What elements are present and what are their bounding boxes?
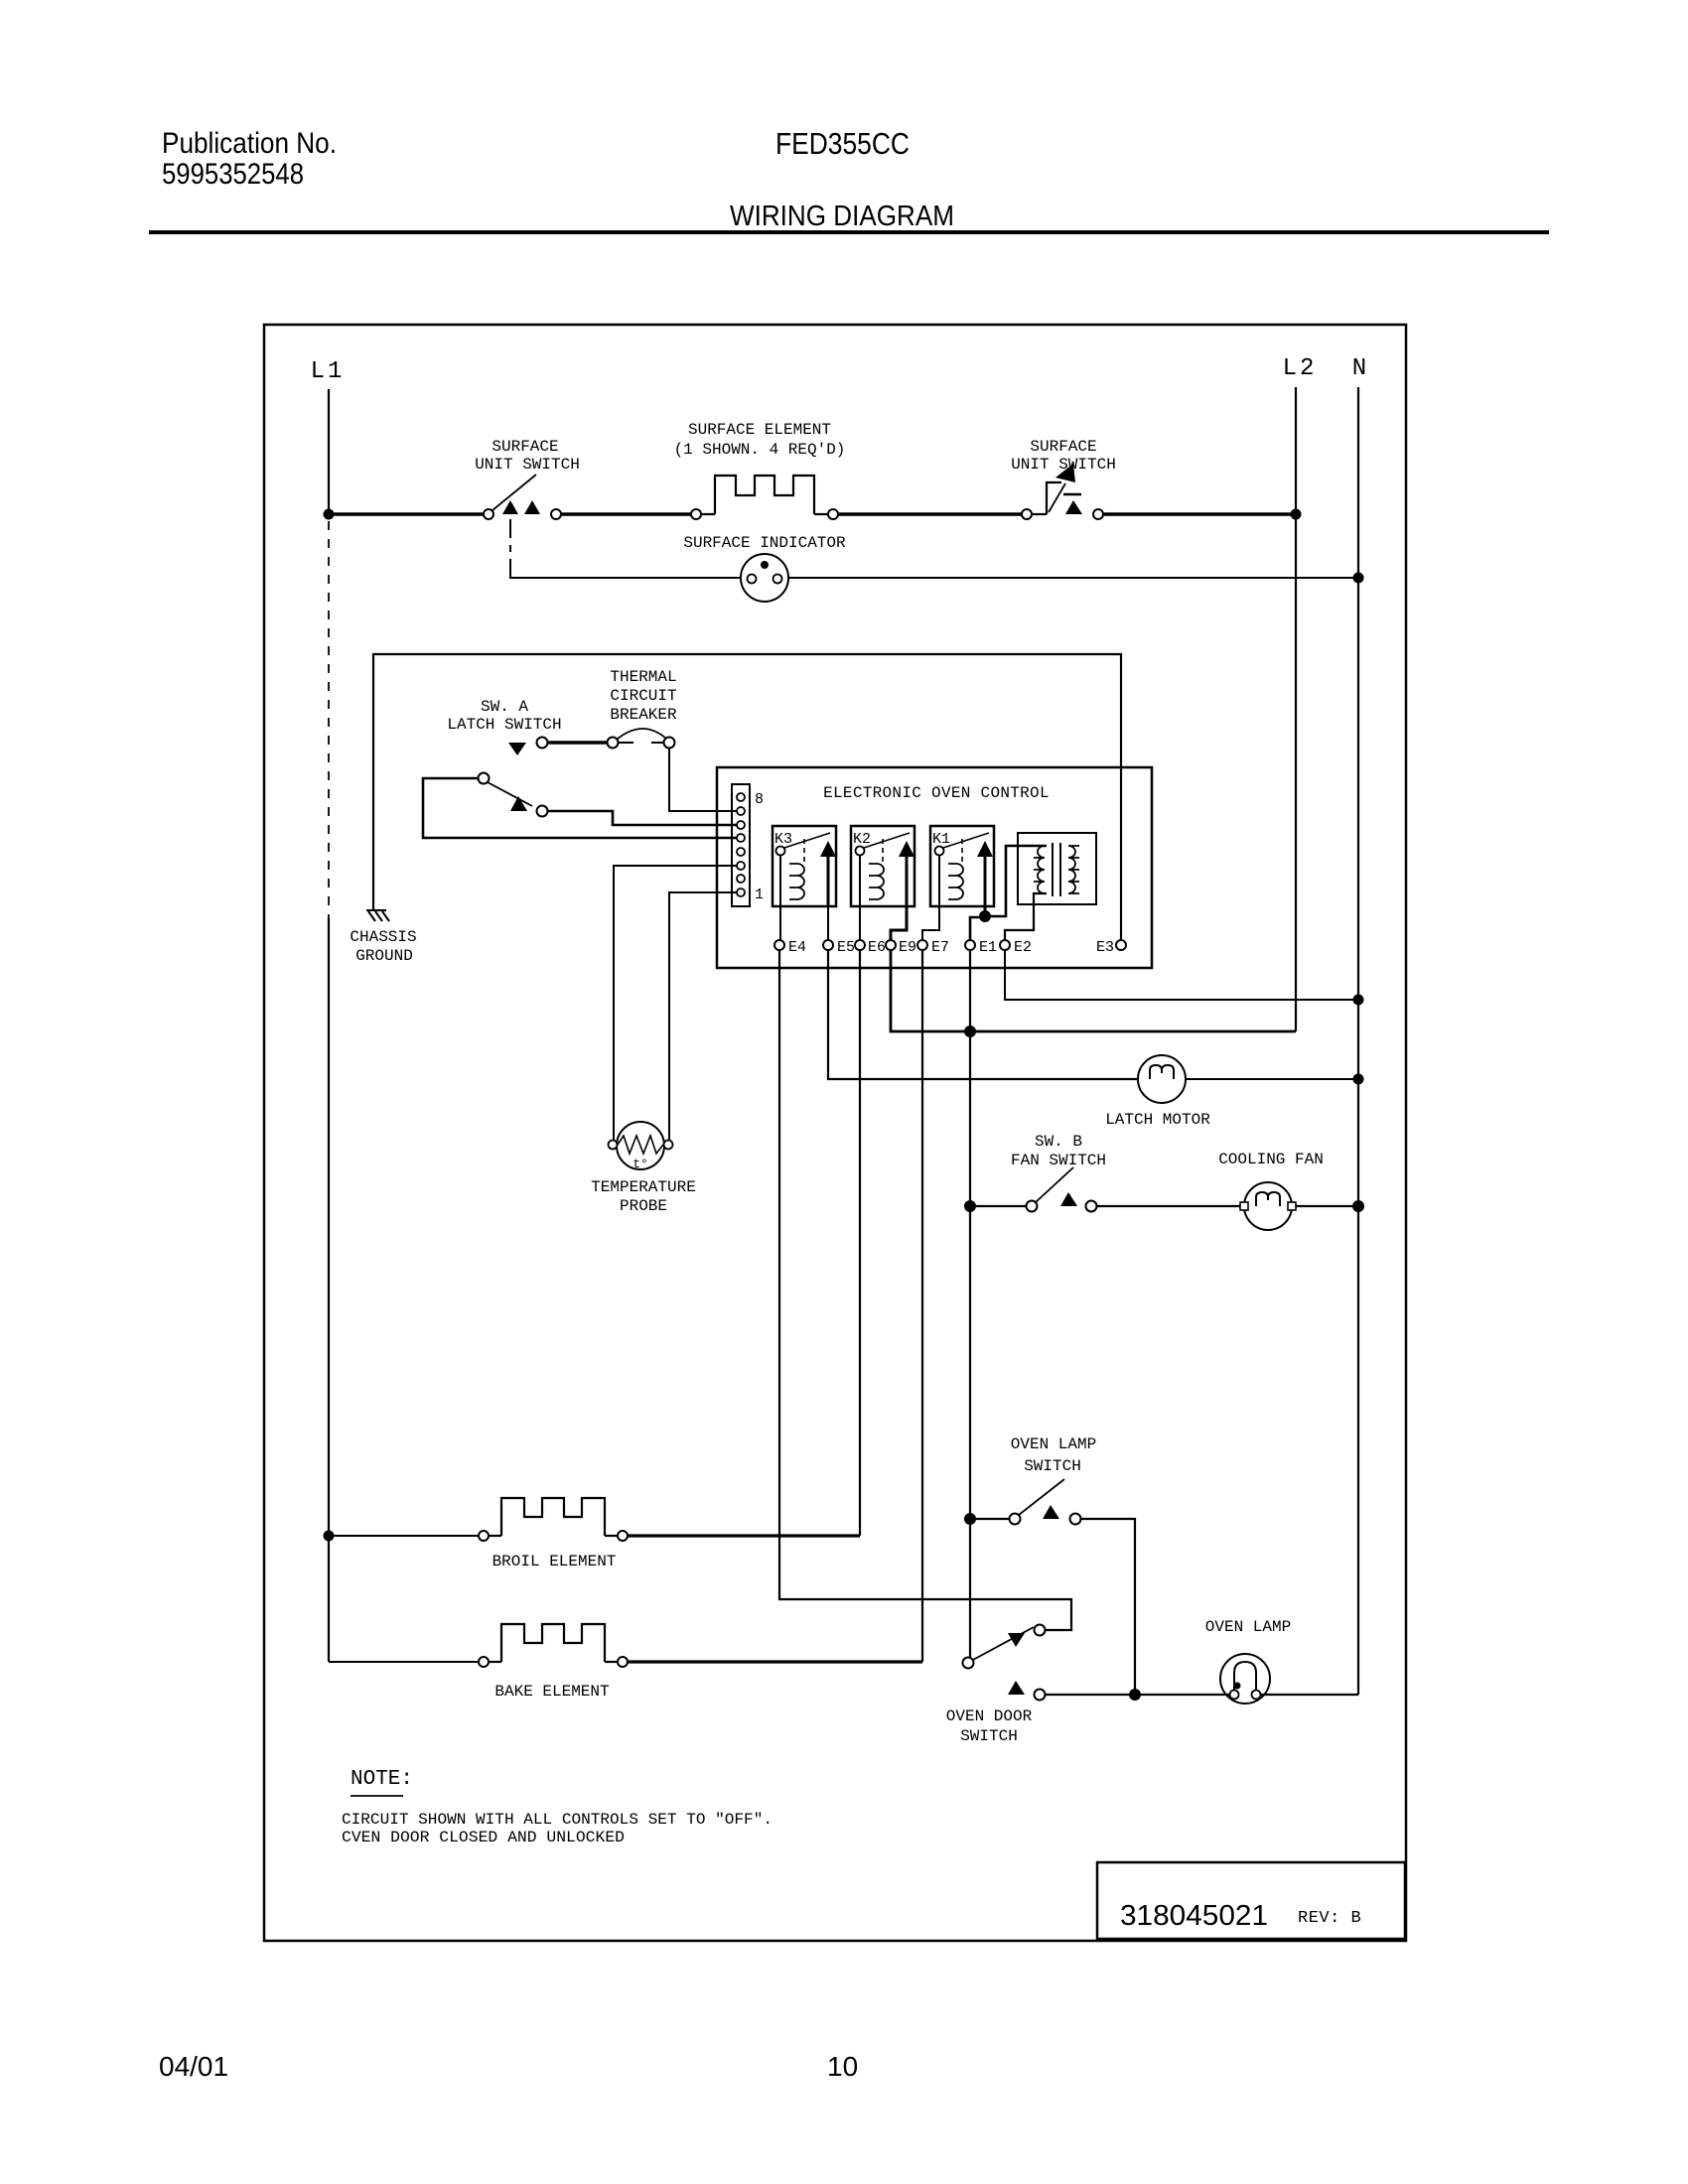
junction dot L2 top row (1291, 509, 1302, 520)
svg-text:COOLING FAN: COOLING FAN (1218, 1151, 1324, 1168)
wire L1 vertical top (328, 389, 330, 515)
terminal E9 (886, 940, 896, 950)
junction dot broil row L1 (324, 1531, 335, 1542)
svg-text:SWITCH: SWITCH (1024, 1457, 1081, 1475)
svg-text:GROUND: GROUND (355, 947, 413, 965)
svg-text:ELECTRONIC OVEN CONTROL: ELECTRONIC OVEN CONTROL (823, 784, 1050, 802)
wire door switch to oven lamp (1046, 1694, 1229, 1696)
wire oven lamp to N (1261, 1694, 1358, 1696)
svg-text:E4: E4 (788, 939, 806, 956)
temperature probe (609, 1122, 673, 1171)
svg-text:CIRCUIT SHOWN WITH ALL CONTROL: CIRCUIT SHOWN WITH ALL CONTROLS SET TO "… (342, 1811, 773, 1829)
svg-text:OVEN LAMP: OVEN LAMP (1205, 1618, 1291, 1636)
junction dot lamp row (1129, 1689, 1141, 1701)
wire L1 vertical dashed mid (328, 521, 330, 918)
svg-text:Publication No.: Publication No. (162, 127, 337, 160)
header rule (149, 230, 1549, 234)
junction dot latch motor N (1353, 1074, 1364, 1085)
svg-text:CIRCUIT: CIRCUIT (610, 687, 676, 705)
svg-text:REV: B: REV: B (1298, 1909, 1361, 1928)
surface element (691, 476, 838, 519)
svg-text:LATCH SWITCH: LATCH SWITCH (447, 716, 561, 734)
svg-text:SURFACE: SURFACE (1030, 438, 1096, 456)
svg-text:E9: E9 (899, 939, 916, 956)
bake element (329, 1624, 628, 1667)
svg-text:L1: L1 (311, 358, 346, 385)
svg-text:OVEN LAMP: OVEN LAMP (1011, 1435, 1096, 1453)
wire K1 pivot to E7 (922, 856, 939, 940)
svg-text:FED355CC: FED355CC (775, 126, 910, 161)
fan switch SW B (970, 1167, 1097, 1212)
wire E2 to transformer primary bottom (1005, 893, 1047, 940)
wire E9 down and right to L2 (891, 950, 1296, 1031)
EOC connector (732, 784, 750, 906)
svg-text:SWITCH: SWITCH (960, 1727, 1018, 1745)
junction dot E2 wire at N (1353, 995, 1364, 1006)
junction dot K1/E1/transformer (979, 910, 991, 922)
surface indicator lamp (741, 554, 788, 602)
svg-text:L2: L2 (1283, 355, 1318, 382)
junction dot L1 top row (324, 509, 335, 520)
svg-text:10: 10 (827, 2051, 858, 2082)
wire E7 down to bake (921, 950, 923, 1662)
junction dot lamp switch row E1 (964, 1513, 976, 1525)
svg-text:LATCH MOTOR: LATCH MOTOR (1105, 1111, 1210, 1129)
wire top row to element (561, 512, 691, 515)
latch motor (1138, 1055, 1186, 1103)
wire chassis ground riser and top run to E3 (373, 654, 1121, 939)
wire cooling fan to N (1296, 1205, 1353, 1207)
wire broil element to E6 (628, 1534, 860, 1537)
terminal E7 (917, 940, 927, 950)
wire lower pole to pin 6 (548, 811, 737, 825)
relay K1 (930, 826, 994, 906)
broil element (329, 1498, 628, 1541)
terminal E1 (965, 940, 975, 950)
terminal E2 (1000, 940, 1010, 950)
wire K2 arrow to E9 (891, 906, 907, 940)
wire breaker to pin 7 (669, 749, 737, 811)
svg-text:1: 1 (755, 887, 764, 903)
terminal E4 (774, 940, 784, 950)
wire L1 vertical lower (328, 918, 330, 1662)
latch switch upper pole (508, 738, 619, 756)
transformer T1 (1018, 833, 1096, 904)
svg-text:CVEN DOOR CLOSED AND UNLOCKED: CVEN DOOR CLOSED AND UNLOCKED (342, 1829, 625, 1846)
svg-text:E7: E7 (931, 939, 949, 956)
svg-text:BREAKER: BREAKER (610, 706, 677, 724)
svg-text:SURFACE: SURFACE (492, 438, 558, 456)
thermal circuit breaker (618, 729, 675, 749)
surface unit switch 1 (484, 475, 561, 519)
terminal E3 (1116, 940, 1126, 950)
chassis ground symbol (366, 910, 389, 921)
wire lower pole pivot to pin 5 (423, 778, 737, 838)
wire bake element to E7 (628, 1660, 922, 1663)
wire lamp switch down to lamp row (1081, 1519, 1135, 1695)
svg-text:E3: E3 (1096, 939, 1114, 956)
junction dot E1 riser on E9 wire (964, 1025, 976, 1037)
junction dot indicator N (1353, 573, 1364, 584)
svg-text:E5: E5 (837, 939, 855, 956)
wire top row element to switch 2 (838, 512, 1022, 515)
wire main top row (329, 512, 489, 515)
wire indicator to N (788, 577, 1358, 579)
wire top row to L2 (1103, 512, 1296, 515)
relay K2 (851, 826, 914, 906)
part number box 318045021 REV B (1097, 1862, 1405, 1939)
cooling fan motor (1240, 1182, 1296, 1230)
oven door switch (963, 1625, 1046, 1701)
junction dot fan row N (1352, 1200, 1364, 1212)
electronic oven control box (717, 767, 1152, 968)
svg-text:PROBE: PROBE (620, 1197, 667, 1215)
svg-text:UNIT SWITCH: UNIT SWITCH (475, 456, 580, 474)
svg-text:5995352548: 5995352548 (162, 158, 304, 191)
diagram border frame (264, 325, 1406, 1941)
wire junction to E1 (970, 917, 985, 940)
svg-text:SW. B: SW. B (1035, 1133, 1082, 1151)
svg-text:UNIT SWITCH: UNIT SWITCH (1011, 456, 1116, 474)
svg-text:OVEN DOOR: OVEN DOOR (946, 1707, 1033, 1725)
wire E2 down to N (1005, 950, 1353, 1000)
svg-text:BROIL ELEMENT: BROIL ELEMENT (492, 1553, 617, 1570)
svg-text:E2: E2 (1014, 939, 1032, 956)
wire E6 down to broil (859, 950, 861, 1536)
terminal E6 (855, 940, 865, 950)
wire fan switch to cooling fan (1097, 1205, 1244, 1207)
svg-text:K2: K2 (853, 831, 871, 848)
wire K2 pivot to E6 (859, 856, 861, 940)
wire pin 3 to temperature probe left (614, 866, 737, 1141)
wire K1 arrow to junction (984, 906, 987, 916)
svg-text:E1: E1 (979, 939, 997, 956)
svg-text:SURFACE INDICATOR: SURFACE INDICATOR (683, 534, 846, 552)
wire E4 down to door switch upper contact (779, 950, 1071, 1630)
svg-text:TEMPERATURE: TEMPERATURE (591, 1178, 696, 1196)
svg-text:(1 SHOWN. 4 REQ'D): (1 SHOWN. 4 REQ'D) (674, 441, 846, 459)
header text: Publication No. (162, 127, 337, 191)
latch switch lower pole (479, 773, 548, 817)
svg-text:CHASSIS: CHASSIS (350, 928, 416, 946)
oven lamp switch (970, 1479, 1081, 1525)
wire E1 down to door switch (969, 950, 971, 1658)
svg-text:04/01: 04/01 (159, 2051, 228, 2082)
svg-text:WIRING DIAGRAM: WIRING DIAGRAM (730, 201, 954, 232)
oven lamp (1220, 1654, 1270, 1704)
svg-text:NOTE:: NOTE: (351, 1768, 413, 1791)
surface unit switch 2 (1022, 464, 1103, 519)
wire latch motor to N (1186, 1078, 1353, 1080)
junction dot fan row E1 (964, 1200, 976, 1212)
wire surface indicator drop (part dashed) (510, 519, 741, 578)
wire K3 pivot to E4 (779, 856, 781, 940)
wire junction to transformer primary top (985, 846, 1047, 916)
svg-text:318045021: 318045021 (1120, 1900, 1268, 1932)
wire pin 1 to temperature probe right (669, 892, 737, 1141)
svg-text:THERMAL: THERMAL (610, 668, 676, 686)
svg-text:t°: t° (633, 1157, 648, 1171)
svg-text:BAKE ELEMENT: BAKE ELEMENT (494, 1683, 609, 1701)
svg-text:SW. A: SW. A (481, 698, 528, 716)
wire N vertical (1357, 387, 1359, 1695)
svg-text:FAN SWITCH: FAN SWITCH (1011, 1152, 1106, 1169)
svg-text:SURFACE ELEMENT: SURFACE ELEMENT (688, 421, 831, 439)
svg-text:N: N (1352, 355, 1366, 382)
svg-text:K1: K1 (932, 831, 950, 848)
terminal E5 (823, 940, 833, 950)
svg-text:E6: E6 (868, 939, 886, 956)
wire L2 vertical (1295, 387, 1297, 1031)
relay K3 (773, 826, 836, 940)
wire E5 down to latch motor (828, 950, 1138, 1079)
svg-text:8: 8 (755, 791, 764, 808)
